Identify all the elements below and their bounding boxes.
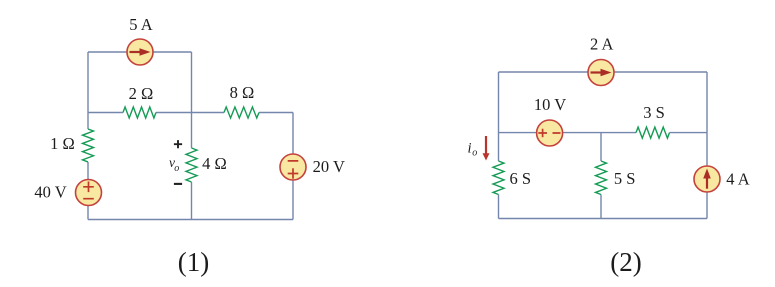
svg-text:2 Ω: 2 Ω	[129, 84, 154, 103]
resistor 4-ohm (vertical zigzag)	[186, 148, 197, 182]
wire: middle vertical upper segment	[191, 52, 193, 148]
wire: top wire circuit 2	[499, 71, 708, 73]
wire: middle vertical upper segment circuit 2	[600, 133, 602, 161]
svg-text:2 A: 2 A	[590, 35, 613, 54]
svg-text:o: o	[472, 148, 477, 159]
wire: left vertical upper segment circuit 2	[498, 72, 500, 161]
svg-text:4 A: 4 A	[726, 170, 749, 189]
voltage source 40V (circle with + over -)	[76, 180, 102, 206]
svg-text:5 A: 5 A	[129, 15, 152, 34]
voltage source 20V (circle with - over +)	[280, 154, 306, 180]
resistor 2-ohm (horizontal zigzag)	[123, 107, 156, 118]
svg-text:o: o	[174, 163, 179, 174]
resistor 1-ohm (vertical zigzag)	[83, 129, 94, 162]
current source 2A (circle with right arrow)	[588, 60, 614, 86]
wire: right vertical (through 4A source)	[706, 72, 708, 219]
wire: left vertical upper segment	[87, 52, 89, 129]
svg-text:8 Ω: 8 Ω	[230, 83, 255, 102]
current source 5A (circle with right arrow)	[127, 39, 153, 65]
svg-text:10 V: 10 V	[534, 95, 566, 114]
wire: right vertical (through 20V source)	[292, 113, 294, 220]
label minus sign of vo	[174, 183, 182, 185]
svg-text:5 S: 5 S	[614, 169, 636, 188]
svg-text:3 S: 3 S	[643, 103, 665, 122]
wire: middle horizontal right of 8-ohm	[259, 112, 293, 114]
wire: bottom wire circuit 2	[499, 218, 708, 220]
resistor 5S (vertical zigzag)	[596, 161, 607, 195]
svg-text:(2): (2)	[610, 247, 641, 277]
wire: middle horizontal left part (through 10V source)	[499, 132, 637, 134]
svg-text:(1): (1)	[178, 247, 209, 277]
svg-text:6 S: 6 S	[510, 169, 532, 188]
current source 4A (circle with up arrow)	[694, 166, 720, 192]
wire: middle vertical lower segment circuit 2	[600, 195, 602, 219]
wire: middle horizontal right of 3S	[670, 132, 708, 134]
resistor 6S (vertical zigzag)	[493, 161, 504, 195]
resistor 3S (horizontal zigzag)	[636, 127, 670, 138]
wire: middle horizontal left of 2-ohm	[88, 112, 123, 114]
wire: left vertical lower segment circuit 2	[498, 195, 500, 219]
wire: left vertical lower segment (through 40V source)	[87, 162, 89, 220]
wire: middle vertical lower segment	[191, 182, 193, 220]
wire: bottom wire circuit 1	[88, 219, 293, 221]
svg-text:4 Ω: 4 Ω	[202, 154, 227, 173]
svg-text:1 Ω: 1 Ω	[50, 134, 75, 153]
wire: top wire node A (left top horizontal)	[88, 51, 192, 53]
label plus sign of vo	[174, 140, 182, 148]
label io current arrow (red down arrow)	[483, 136, 490, 161]
svg-text:20 V: 20 V	[313, 157, 345, 176]
svg-text:i: i	[468, 141, 472, 157]
voltage source 10V (circle with + left, - right)	[537, 120, 563, 146]
wire: middle horizontal between 2-ohm and 8-ohm	[156, 112, 224, 114]
resistor 8-ohm (horizontal zigzag)	[224, 107, 259, 118]
svg-text:40 V: 40 V	[34, 182, 66, 201]
